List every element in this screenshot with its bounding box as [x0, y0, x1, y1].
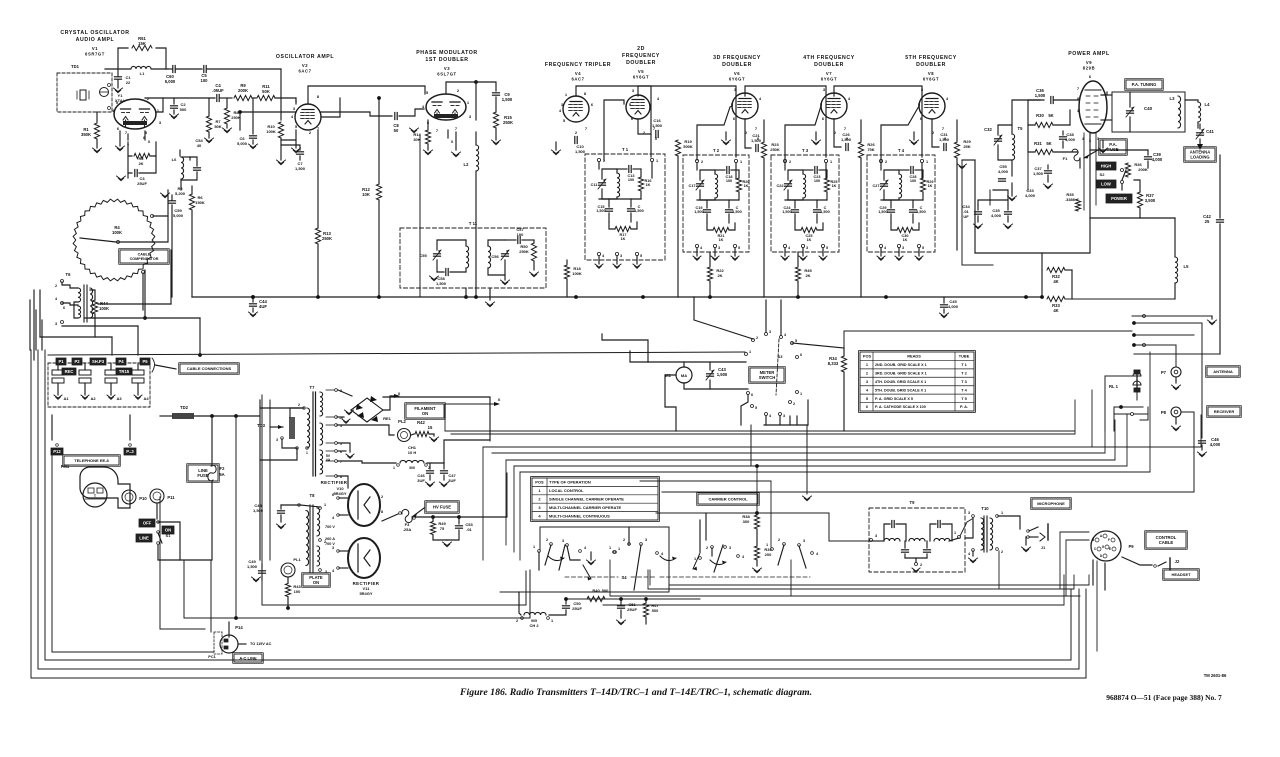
svg-text:2D: 2D: [637, 46, 645, 52]
svg-text:.05UF: .05UF: [212, 88, 224, 93]
svg-text:4,000: 4,000: [998, 169, 1009, 174]
svg-text:L2: L2: [464, 162, 470, 167]
svg-text:3: 3: [783, 414, 785, 418]
svg-text:1: 1: [533, 545, 535, 549]
svg-text:FM1: FM1: [61, 464, 70, 469]
svg-text:ON: ON: [165, 528, 171, 533]
svg-text:V2: V2: [302, 63, 308, 68]
svg-text:4TH. DOUB. GRID SCALE X 1: 4TH. DOUB. GRID SCALE X 1: [875, 380, 926, 384]
svg-text:1K: 1K: [928, 184, 933, 188]
svg-text:100K: 100K: [266, 129, 276, 134]
svg-text:1,500: 1,500: [916, 210, 926, 214]
svg-text:X: X: [498, 397, 501, 402]
svg-text:5: 5: [795, 339, 797, 343]
svg-text:6AC7: 6AC7: [571, 77, 584, 82]
svg-text:C17: C17: [689, 184, 696, 188]
svg-text:C11: C11: [591, 183, 598, 187]
svg-text:SH.P3: SH.P3: [92, 359, 105, 364]
svg-text:1: 1: [749, 350, 751, 354]
svg-text:2: 2: [623, 538, 625, 542]
svg-text:1,500: 1,500: [751, 138, 762, 143]
svg-text:6Y6GT: 6Y6GT: [633, 75, 649, 80]
svg-text:POWER: POWER: [1111, 196, 1127, 201]
svg-text:L3: L3: [1170, 96, 1176, 101]
svg-text:SINGLE CHANNEL CARRIER OPERATE: SINGLE CHANNEL CARRIER OPERATE: [549, 497, 624, 502]
svg-text:P10: P10: [139, 496, 147, 501]
svg-text:V6: V6: [734, 71, 740, 76]
svg-text:8: 8: [143, 136, 145, 140]
svg-text:150K: 150K: [195, 200, 205, 205]
svg-text:P8: P8: [1161, 410, 1167, 415]
svg-text:T 4: T 4: [961, 387, 967, 392]
svg-text:1K: 1K: [621, 237, 626, 241]
svg-text:200: 200: [765, 552, 772, 557]
svg-text:1,500: 1,500: [939, 137, 950, 142]
svg-text:3: 3: [276, 438, 278, 442]
svg-text:2ND. DOUB. GRID SCALE X 1: 2ND. DOUB. GRID SCALE X 1: [875, 363, 927, 367]
svg-text:ANTENNA: ANTENNA: [1213, 369, 1233, 374]
svg-text:50K: 50K: [214, 124, 221, 129]
svg-text:C55: C55: [419, 253, 427, 258]
svg-text:3: 3: [806, 246, 808, 250]
svg-text:1,500: 1,500: [732, 210, 742, 214]
svg-text:1,500: 1,500: [295, 166, 306, 171]
svg-text:1K: 1K: [646, 183, 651, 187]
svg-text:1: 1: [800, 392, 802, 396]
svg-text:TUBE: TUBE: [959, 354, 970, 359]
svg-text:C56: C56: [491, 254, 499, 259]
svg-text:3: 3: [729, 546, 731, 550]
svg-text:1: 1: [306, 451, 308, 455]
svg-text:250K: 250K: [519, 249, 529, 254]
svg-text:250K: 250K: [322, 236, 332, 241]
svg-text:40: 40: [197, 143, 202, 148]
svg-text:6: 6: [800, 353, 802, 357]
svg-text:P9: P9: [1128, 544, 1134, 549]
svg-text:P11: P11: [167, 495, 175, 500]
svg-text:25UF: 25UF: [572, 606, 582, 611]
svg-text:R31: R31: [1034, 141, 1042, 146]
svg-text:3: 3: [562, 539, 564, 543]
svg-text:100K: 100K: [112, 230, 122, 235]
svg-text:P. A.: P. A.: [960, 404, 968, 409]
svg-text:FUSE: FUSE: [197, 473, 208, 478]
svg-text:5: 5: [738, 246, 740, 250]
svg-text:FREQUENCY TRIPLER: FREQUENCY TRIPLER: [545, 62, 611, 68]
svg-text:T9: T9: [910, 500, 916, 505]
svg-text:3: 3: [875, 534, 877, 538]
svg-text:75K: 75K: [867, 147, 874, 152]
svg-text:5: 5: [826, 246, 828, 250]
svg-text:25UF: 25UF: [137, 181, 147, 186]
svg-text:3: 3: [620, 254, 622, 258]
svg-text:1,500: 1,500: [878, 210, 888, 214]
svg-text:1,500: 1,500: [1033, 171, 1044, 176]
svg-text:8: 8: [381, 510, 383, 514]
svg-text:2: 2: [793, 402, 795, 406]
svg-text:S4: S4: [621, 575, 627, 580]
svg-text:6: 6: [751, 393, 753, 397]
svg-text:5,000: 5,000: [165, 79, 176, 84]
svg-text:1: 1: [324, 503, 326, 507]
svg-text:V7: V7: [826, 71, 832, 76]
svg-text:5R4GY: 5R4GY: [333, 491, 346, 496]
svg-text:C27: C27: [873, 184, 880, 188]
svg-text:HIGH: HIGH: [1101, 164, 1111, 169]
svg-text:5R4GY: 5R4GY: [359, 591, 372, 596]
svg-text:T 11: T 11: [469, 221, 478, 226]
svg-text:A2: A2: [90, 396, 96, 401]
svg-text:1: 1: [926, 160, 928, 164]
svg-text:DOUBLER: DOUBLER: [814, 62, 844, 68]
svg-text:CABLE CONNECTIONS: CABLE CONNECTIONS: [187, 366, 232, 371]
svg-text:4UF: 4UF: [259, 304, 267, 309]
svg-text:MICROPHONE: MICROPHONE: [1037, 501, 1065, 506]
svg-text:2: 2: [55, 284, 57, 288]
svg-text:A4: A4: [143, 396, 149, 401]
svg-text:.25A: .25A: [403, 527, 412, 532]
svg-text:COMPENSATOR: COMPENSATOR: [130, 257, 159, 261]
svg-text:1: 1: [1001, 511, 1003, 515]
svg-text:F: F: [1108, 538, 1110, 542]
svg-text:3: 3: [769, 330, 771, 334]
svg-text:LOADING: LOADING: [1190, 154, 1209, 159]
svg-text:LOCAL CONTROL: LOCAL CONTROL: [549, 488, 584, 493]
svg-text:1,500: 1,500: [575, 149, 586, 154]
svg-text:TD1: TD1: [71, 64, 80, 69]
svg-text:3UF: 3UF: [448, 478, 456, 483]
svg-text:15: 15: [428, 425, 433, 430]
svg-text:2: 2: [756, 336, 758, 340]
svg-text:J2: J2: [1175, 559, 1180, 564]
svg-text:HV FUSE: HV FUSE: [433, 505, 451, 510]
svg-text:1: 1: [618, 547, 620, 551]
svg-text:75: 75: [440, 526, 445, 531]
svg-text:1K: 1K: [744, 184, 749, 188]
svg-text:POS: POS: [535, 480, 544, 485]
svg-text:F1: F1: [1063, 156, 1068, 161]
svg-text:500: 500: [652, 608, 659, 613]
svg-text:700 V: 700 V: [325, 525, 335, 529]
svg-text:C22: C22: [777, 184, 784, 188]
svg-text:3: 3: [645, 538, 647, 542]
svg-text:10K: 10K: [362, 192, 370, 197]
svg-text:P12: P12: [53, 449, 61, 454]
svg-text:TD3: TD3: [257, 423, 266, 428]
svg-text:1,500: 1,500: [502, 97, 513, 102]
svg-text:2: 2: [789, 160, 791, 164]
svg-text:P4: P4: [118, 359, 124, 364]
svg-text:T6: T6: [66, 272, 72, 277]
svg-text:1K: 1K: [832, 184, 837, 188]
svg-text:3: 3: [902, 246, 904, 250]
svg-text:5A: 5A: [219, 472, 224, 477]
svg-text:A-C LINE: A-C LINE: [239, 655, 257, 660]
svg-text:ON: ON: [422, 411, 428, 416]
svg-text:CARRIER CONTROL: CARRIER CONTROL: [708, 496, 748, 501]
svg-text:C32: C32: [984, 127, 992, 132]
svg-text:3: 3: [55, 322, 57, 326]
svg-text:V8: V8: [928, 71, 934, 76]
svg-text:OFF: OFF: [143, 521, 152, 526]
svg-text:6SR7GT: 6SR7GT: [85, 52, 105, 57]
svg-text:A1: A1: [63, 396, 69, 401]
svg-text:10 H: 10 H: [408, 450, 417, 455]
svg-text:S1: S1: [166, 533, 172, 538]
svg-text:100: 100: [814, 179, 820, 183]
svg-text:T8: T8: [310, 493, 316, 498]
svg-text:1,500: 1,500: [652, 123, 663, 128]
svg-text:A3: A3: [116, 396, 122, 401]
svg-text:1,500: 1,500: [247, 564, 258, 569]
svg-text:4,000: 4,000: [1152, 157, 1163, 162]
svg-text:5: 5: [922, 246, 924, 250]
svg-text:2: 2: [885, 160, 887, 164]
svg-text:CH 2: CH 2: [529, 623, 539, 628]
svg-text:2: 2: [1001, 550, 1003, 554]
svg-text:T 3: T 3: [802, 148, 809, 153]
svg-text:T 1: T 1: [622, 147, 629, 152]
svg-text:500: 500: [180, 107, 187, 112]
svg-text:POWER AMPL: POWER AMPL: [1068, 51, 1110, 57]
svg-text:P14: P14: [235, 625, 243, 630]
svg-text:1,500: 1,500: [1035, 93, 1046, 98]
svg-text:FREQUENCY: FREQUENCY: [622, 53, 660, 59]
svg-text:5: 5: [755, 406, 757, 410]
svg-text:P. A. GRID SCALE X 5: P. A. GRID SCALE X 5: [875, 397, 913, 401]
svg-text:4,000: 4,000: [991, 213, 1002, 218]
svg-text:ON: ON: [313, 580, 319, 585]
svg-text:PL1: PL1: [293, 557, 301, 562]
svg-text:TM 2601-86: TM 2601-86: [1204, 673, 1227, 678]
svg-text:3,500: 3,500: [1145, 198, 1156, 203]
svg-text:1: 1: [830, 160, 832, 164]
svg-text:LOW: LOW: [1101, 182, 1111, 187]
svg-text:500K: 500K: [683, 144, 693, 149]
svg-text:OSCILLATOR AMPL: OSCILLATOR AMPL: [276, 54, 334, 60]
svg-text:1,500: 1,500: [841, 137, 852, 142]
svg-text:2: 2: [381, 495, 383, 499]
svg-text:200K: 200K: [1138, 167, 1148, 172]
svg-text:TR15: TR15: [119, 369, 130, 374]
svg-text:MA: MA: [681, 373, 687, 378]
svg-text:260 A: 260 A: [325, 537, 335, 541]
svg-text:V3: V3: [444, 66, 450, 71]
svg-text:2: 2: [778, 538, 780, 542]
svg-text:X: X: [398, 391, 401, 396]
svg-text:3RD. DOUB. GRID SCALE X 1: 3RD. DOUB. GRID SCALE X 1: [875, 371, 927, 375]
svg-text:2K: 2K: [805, 273, 810, 278]
svg-text:L1: L1: [140, 71, 145, 76]
svg-text:4TH FREQUENCY: 4TH FREQUENCY: [803, 55, 855, 61]
svg-text:3: 3: [718, 246, 720, 250]
svg-text:1,500: 1,500: [596, 209, 606, 213]
svg-text:2: 2: [298, 403, 300, 407]
svg-text:1,500: 1,500: [782, 210, 792, 214]
svg-text:1: 1: [954, 531, 956, 535]
svg-text:J1: J1: [1041, 545, 1046, 550]
svg-text:1: 1: [766, 543, 768, 547]
svg-text:300: 300: [409, 466, 415, 470]
svg-text:3D FREQUENCY: 3D FREQUENCY: [713, 55, 761, 61]
svg-text:4,000: 4,000: [1210, 442, 1221, 447]
svg-text:Figure 186. Radio Transmitt: Figure 186. Radio Transmitters T–14D/TRC…: [459, 687, 812, 698]
svg-text:R42: R42: [417, 420, 425, 425]
svg-text:DOUBLER: DOUBLER: [916, 62, 946, 68]
svg-text:968874 O—51 (Face page 388): 968874 O—51 (Face page 388) No. 7: [1106, 693, 1222, 702]
svg-text:P.A. TUNING: P.A. TUNING: [1132, 82, 1157, 87]
svg-text:3UF: 3UF: [417, 478, 425, 483]
svg-text:2: 2: [516, 619, 518, 623]
svg-text:PHASE MODULATOR: PHASE MODULATOR: [416, 50, 478, 56]
svg-text:MULTI-CHANNEL CONTINUOUS: MULTI-CHANNEL CONTINUOUS: [549, 513, 610, 518]
svg-text:1K: 1K: [903, 238, 908, 242]
svg-text:8,333: 8,333: [828, 361, 839, 366]
svg-text:TELEPHONE EE-8: TELEPHONE EE-8: [74, 458, 109, 463]
svg-text:25K: 25K: [963, 144, 970, 149]
svg-text:4,000: 4,000: [1065, 137, 1076, 142]
svg-text:25UF: 25UF: [627, 607, 637, 612]
svg-text:1K: 1K: [719, 238, 724, 242]
svg-text:T 2: T 2: [961, 370, 967, 375]
svg-text:T 5: T 5: [961, 396, 967, 401]
svg-text:P1: P1: [58, 359, 64, 364]
svg-text:RL 1: RL 1: [1109, 384, 1119, 389]
svg-text:2: 2: [920, 563, 922, 567]
svg-text:XTAL: XTAL: [115, 98, 126, 103]
svg-text:HEADSET: HEADSET: [1171, 572, 1191, 577]
svg-text:RE1: RE1: [383, 416, 392, 421]
svg-text:1: 1: [740, 160, 742, 164]
svg-text:DOUBLER: DOUBLER: [626, 60, 656, 66]
svg-text:CRYSTAL OSCILLATOR: CRYSTAL OSCILLATOR: [60, 30, 129, 36]
svg-text:829B: 829B: [1083, 66, 1095, 71]
svg-text:15K: 15K: [138, 41, 146, 46]
svg-text:X: X: [148, 140, 151, 144]
svg-text:X: X: [451, 140, 454, 144]
svg-text:READS: READS: [907, 354, 921, 359]
svg-text:6Y6GT: 6Y6GT: [729, 77, 745, 82]
svg-text:V4: V4: [575, 71, 581, 76]
svg-text:100K: 100K: [99, 306, 109, 311]
svg-text:250K: 250K: [770, 147, 780, 152]
svg-text:L6: L6: [172, 157, 177, 162]
svg-text:.3386: .3386: [1065, 197, 1076, 202]
svg-text:5K: 5K: [1046, 141, 1051, 146]
svg-text:PL2: PL2: [398, 419, 406, 424]
svg-text:DOUBLER: DOUBLER: [722, 62, 752, 68]
svg-text:L5: L5: [1184, 264, 1190, 269]
svg-text:3: 3: [325, 570, 327, 574]
svg-text:AUDIO AMPL: AUDIO AMPL: [76, 37, 115, 43]
svg-text:3: 3: [803, 539, 805, 543]
svg-text:V1: V1: [92, 46, 98, 51]
svg-text:2: 2: [546, 538, 548, 542]
svg-text:UF: UF: [963, 214, 969, 219]
svg-text:4K: 4K: [1053, 308, 1058, 313]
svg-text:3: 3: [332, 546, 334, 550]
svg-text:25: 25: [1205, 219, 1210, 224]
svg-text:PC1: PC1: [208, 655, 215, 659]
svg-text:5,000: 5,000: [173, 213, 184, 218]
svg-text:4,000: 4,000: [948, 304, 959, 309]
svg-text:1,500: 1,500: [694, 210, 704, 214]
svg-text:TD2: TD2: [180, 405, 189, 410]
svg-text:1: 1: [656, 159, 658, 163]
svg-text:T7: T7: [310, 385, 316, 390]
svg-text:E: E: [1109, 547, 1111, 551]
svg-text:T 4: T 4: [898, 148, 905, 153]
svg-text:P7: P7: [1161, 370, 1167, 375]
svg-text:5TH. DOUB. GRID SCALE X 1: 5TH. DOUB. GRID SCALE X 1: [875, 388, 926, 392]
svg-text:2K: 2K: [138, 161, 143, 166]
svg-text:REC: REC: [65, 369, 74, 374]
svg-text:F2: F2: [220, 466, 226, 471]
svg-text:V5: V5: [638, 69, 644, 74]
svg-text:FUSE: FUSE: [1107, 147, 1118, 152]
svg-text:.01: .01: [466, 527, 472, 532]
svg-text:6SL7GT: 6SL7GT: [437, 72, 456, 77]
svg-text:S2: S2: [1100, 172, 1106, 177]
svg-text:2: 2: [701, 160, 703, 164]
svg-text:P5: P5: [142, 359, 148, 364]
svg-text:6Y6GT: 6Y6GT: [923, 77, 939, 82]
svg-text:4K: 4K: [1053, 279, 1058, 284]
svg-text:2: 2: [706, 546, 708, 550]
svg-text:5,200: 5,200: [175, 191, 186, 196]
svg-text:C41: C41: [1206, 129, 1214, 134]
svg-text:T10: T10: [981, 506, 989, 511]
svg-text:P2: P2: [74, 359, 80, 364]
svg-text:TYPE OF OPERATION: TYPE OF OPERATION: [549, 480, 591, 485]
svg-text:3: 3: [968, 511, 970, 515]
svg-text:50: 50: [394, 128, 399, 133]
svg-text:6: 6: [63, 306, 65, 310]
svg-text:R30: R30: [1036, 113, 1044, 118]
svg-text:100K: 100K: [572, 271, 582, 276]
svg-text:6AC7: 6AC7: [298, 69, 311, 74]
svg-text:POS: POS: [863, 354, 872, 359]
svg-text:1,500: 1,500: [634, 209, 644, 213]
svg-text:1,500: 1,500: [717, 372, 728, 377]
svg-text:LINE: LINE: [139, 536, 149, 541]
svg-text:RECEIVER: RECEIVER: [1214, 409, 1235, 414]
svg-text:L4: L4: [1205, 102, 1211, 107]
svg-text:100: 100: [726, 179, 732, 183]
svg-text:1,500: 1,500: [820, 210, 830, 214]
svg-text:1: 1: [609, 546, 611, 550]
svg-text:100: 100: [910, 179, 916, 183]
svg-text:5,000: 5,000: [237, 141, 248, 146]
svg-text:1K: 1K: [807, 238, 812, 242]
svg-text:250K: 250K: [503, 120, 513, 125]
svg-text:TO 115V AC: TO 115V AC: [250, 642, 272, 646]
svg-text:4,000: 4,000: [1025, 193, 1036, 198]
svg-text:MULTI-CHANNEL CARRIER OPERATE: MULTI-CHANNEL CARRIER OPERATE: [549, 505, 622, 510]
svg-text:1: 1: [694, 557, 696, 561]
svg-text:5K: 5K: [1048, 113, 1053, 118]
svg-text:1ST DOUBLER: 1ST DOUBLER: [425, 57, 468, 63]
svg-text:SWITCH: SWITCH: [759, 375, 776, 380]
svg-text:6Y6GT: 6Y6GT: [821, 77, 837, 82]
svg-text:C40: C40: [1144, 106, 1153, 111]
svg-text:P. A. CATHODE SCALE X 100: P. A. CATHODE SCALE X 100: [875, 405, 926, 409]
svg-text:100: 100: [294, 589, 301, 594]
svg-text:V9: V9: [1086, 60, 1092, 65]
svg-text:50K: 50K: [262, 89, 270, 94]
svg-text:1: 1: [551, 619, 553, 623]
svg-text:2K: 2K: [717, 273, 722, 278]
